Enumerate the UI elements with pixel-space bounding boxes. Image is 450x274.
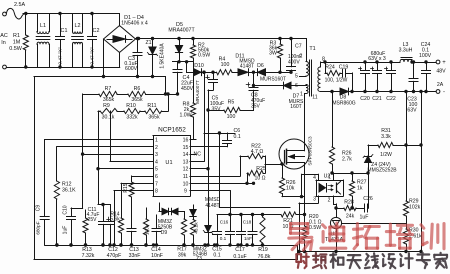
svg-text:0.47 "X": 0.47 "X" bbox=[90, 47, 96, 65]
svg-text:MSR860G: MSR860G bbox=[332, 101, 355, 107]
svg-text:48V: 48V bbox=[436, 69, 446, 75]
svg-text:Z1: Z1 bbox=[145, 40, 151, 46]
svg-text:C26: C26 bbox=[363, 196, 373, 202]
svg-text:R1: R1 bbox=[13, 33, 20, 39]
svg-text:332k: 332k bbox=[126, 115, 138, 121]
svg-text:0.47 "X": 0.47 "X" bbox=[58, 47, 64, 65]
svg-text:680pF: 680pF bbox=[36, 221, 41, 234]
svg-text:450V: 450V bbox=[181, 86, 194, 92]
svg-text:In: In bbox=[1, 40, 6, 46]
svg-text:365k: 365k bbox=[148, 115, 160, 121]
svg-text:R28: R28 bbox=[344, 200, 354, 206]
svg-text:14: 14 bbox=[183, 152, 189, 158]
svg-text:SPP08N50C3: SPP08N50C3 bbox=[308, 136, 313, 166]
svg-text:+: + bbox=[442, 60, 446, 66]
svg-text:30.1k: 30.1k bbox=[102, 115, 115, 121]
svg-text:R7: R7 bbox=[105, 86, 112, 92]
svg-text:2: 2 bbox=[300, 54, 303, 60]
svg-text:11: 11 bbox=[183, 174, 188, 180]
svg-text:5: 5 bbox=[295, 74, 298, 80]
svg-text:24k: 24k bbox=[346, 214, 355, 220]
svg-text:1: 1 bbox=[155, 138, 158, 144]
svg-text:6: 6 bbox=[155, 174, 158, 180]
svg-text:5.6k: 5.6k bbox=[110, 217, 120, 223]
svg-text:2: 2 bbox=[155, 145, 158, 151]
svg-text:100: 100 bbox=[221, 62, 230, 68]
svg-text:R10: R10 bbox=[126, 103, 136, 109]
svg-text:100: 100 bbox=[227, 114, 236, 120]
svg-text:R25: R25 bbox=[256, 166, 266, 172]
svg-text:13: 13 bbox=[183, 159, 189, 165]
svg-text:0.1: 0.1 bbox=[220, 236, 227, 241]
svg-text:5: 5 bbox=[155, 167, 158, 173]
svg-text:1k: 1k bbox=[357, 186, 363, 192]
svg-text:C16: C16 bbox=[220, 220, 229, 225]
svg-text:43.2k: 43.2k bbox=[194, 222, 199, 234]
svg-text:2.5A: 2.5A bbox=[14, 2, 25, 8]
svg-text:C10: C10 bbox=[63, 205, 69, 214]
svg-text:400V: 400V bbox=[288, 60, 300, 66]
svg-text:1uF: 1uF bbox=[63, 226, 69, 235]
svg-text:R15: R15 bbox=[123, 183, 129, 192]
svg-text:AC: AC bbox=[0, 33, 8, 39]
svg-text:C17: C17 bbox=[235, 247, 245, 253]
svg-text:0.5W: 0.5W bbox=[309, 225, 321, 231]
svg-text:R6: R6 bbox=[134, 86, 141, 92]
svg-text:R9: R9 bbox=[103, 103, 110, 109]
svg-text:25V: 25V bbox=[88, 217, 98, 223]
svg-text:1.0W: 1.0W bbox=[179, 113, 191, 119]
svg-text:16: 16 bbox=[183, 138, 189, 144]
svg-text:8: 8 bbox=[155, 189, 158, 195]
svg-text:2.7k: 2.7k bbox=[342, 157, 352, 163]
svg-text:-: - bbox=[443, 90, 445, 96]
svg-text:D9: D9 bbox=[161, 230, 168, 236]
svg-text:R24: R24 bbox=[325, 65, 335, 71]
svg-text:100V: 100V bbox=[419, 53, 432, 59]
svg-text:C1: C1 bbox=[61, 28, 68, 34]
svg-text:C22: C22 bbox=[386, 96, 396, 102]
svg-text:39k: 39k bbox=[178, 253, 187, 259]
svg-text:36.1K: 36.1K bbox=[62, 188, 76, 194]
svg-text:NCP1652: NCP1652 bbox=[158, 127, 186, 134]
svg-text:MRA4007T: MRA4007T bbox=[195, 80, 200, 104]
svg-text:C18: C18 bbox=[243, 220, 252, 225]
svg-text:1.5KE440A: 1.5KE440A bbox=[160, 43, 166, 69]
svg-text:35V: 35V bbox=[251, 104, 261, 110]
svg-text:10nF: 10nF bbox=[151, 253, 163, 259]
svg-text:100k: 100k bbox=[145, 224, 150, 235]
svg-text:7.32k: 7.32k bbox=[82, 253, 95, 259]
svg-text:1nF: 1nF bbox=[244, 236, 252, 241]
svg-text:1: 1 bbox=[328, 175, 331, 181]
svg-text:R19: R19 bbox=[258, 247, 268, 253]
svg-text:0.1: 0.1 bbox=[234, 134, 241, 140]
svg-text:MRA4007T: MRA4007T bbox=[168, 28, 195, 34]
svg-text:9: 9 bbox=[184, 189, 187, 195]
svg-text:33nF: 33nF bbox=[129, 253, 141, 259]
svg-text:1/2W: 1/2W bbox=[380, 152, 392, 158]
svg-text:C21: C21 bbox=[372, 96, 382, 102]
svg-text:1: 1 bbox=[300, 92, 303, 98]
svg-text:3: 3 bbox=[313, 197, 316, 203]
svg-text:3.3uH: 3.3uH bbox=[399, 48, 413, 54]
svg-text:4.7 Ω: 4.7 Ω bbox=[251, 149, 264, 155]
svg-text:4148T: 4148T bbox=[205, 203, 219, 209]
svg-text:3: 3 bbox=[155, 152, 158, 158]
svg-text:C19: C19 bbox=[339, 65, 349, 71]
svg-text:2: 2 bbox=[328, 198, 331, 204]
svg-text:T1: T1 bbox=[309, 46, 315, 52]
svg-text:R5: R5 bbox=[228, 100, 235, 106]
svg-text:C7: C7 bbox=[295, 44, 302, 50]
svg-text:11: 11 bbox=[312, 95, 317, 101]
svg-text:3.3k: 3.3k bbox=[381, 134, 391, 140]
svg-text:C9: C9 bbox=[36, 205, 42, 212]
svg-text:160T: 160T bbox=[290, 104, 301, 110]
svg-text:102k: 102k bbox=[409, 205, 421, 211]
svg-text:15: 15 bbox=[183, 145, 189, 151]
svg-text:63V x 3: 63V x 3 bbox=[368, 56, 386, 62]
svg-text:C20: C20 bbox=[360, 96, 370, 102]
svg-text:C2: C2 bbox=[93, 28, 100, 34]
svg-text:10k: 10k bbox=[286, 186, 295, 192]
svg-text:1uF: 1uF bbox=[360, 215, 369, 221]
svg-text:63V: 63V bbox=[407, 108, 417, 114]
svg-text:NC: NC bbox=[194, 151, 202, 157]
svg-text:4148T: 4148T bbox=[240, 64, 254, 70]
svg-text:470pF: 470pF bbox=[107, 253, 122, 259]
svg-text:0.5W: 0.5W bbox=[198, 53, 210, 59]
svg-text:1N5406 x 4: 1N5406 x 4 bbox=[121, 21, 148, 27]
svg-text:0.1: 0.1 bbox=[213, 253, 220, 259]
svg-text:0.5W: 0.5W bbox=[9, 46, 22, 52]
svg-text:1M: 1M bbox=[13, 40, 21, 46]
svg-text:MMSZ5252B: MMSZ5252B bbox=[367, 168, 397, 174]
svg-text:6: 6 bbox=[295, 83, 298, 89]
svg-text:L2: L2 bbox=[75, 23, 81, 29]
svg-text:D6: D6 bbox=[257, 63, 264, 69]
svg-text:MURS160T: MURS160T bbox=[260, 77, 286, 83]
svg-text:7: 7 bbox=[155, 181, 158, 187]
svg-text:2A: 2A bbox=[437, 82, 444, 88]
svg-text:D10: D10 bbox=[194, 63, 204, 69]
svg-text:600V: 600V bbox=[125, 66, 138, 72]
svg-text:100, 1/2W: 100, 1/2W bbox=[325, 78, 348, 84]
svg-text:35V: 35V bbox=[212, 107, 222, 113]
svg-text:L1: L1 bbox=[40, 23, 46, 29]
svg-text:R11: R11 bbox=[147, 103, 156, 109]
svg-text:12: 12 bbox=[183, 167, 189, 173]
svg-text:4: 4 bbox=[155, 159, 158, 165]
svg-text:4: 4 bbox=[313, 175, 316, 181]
svg-text:10 Ω: 10 Ω bbox=[254, 176, 265, 182]
svg-text:U1: U1 bbox=[165, 160, 172, 166]
svg-text:10: 10 bbox=[183, 181, 189, 187]
svg-text:3W: 3W bbox=[269, 51, 277, 57]
